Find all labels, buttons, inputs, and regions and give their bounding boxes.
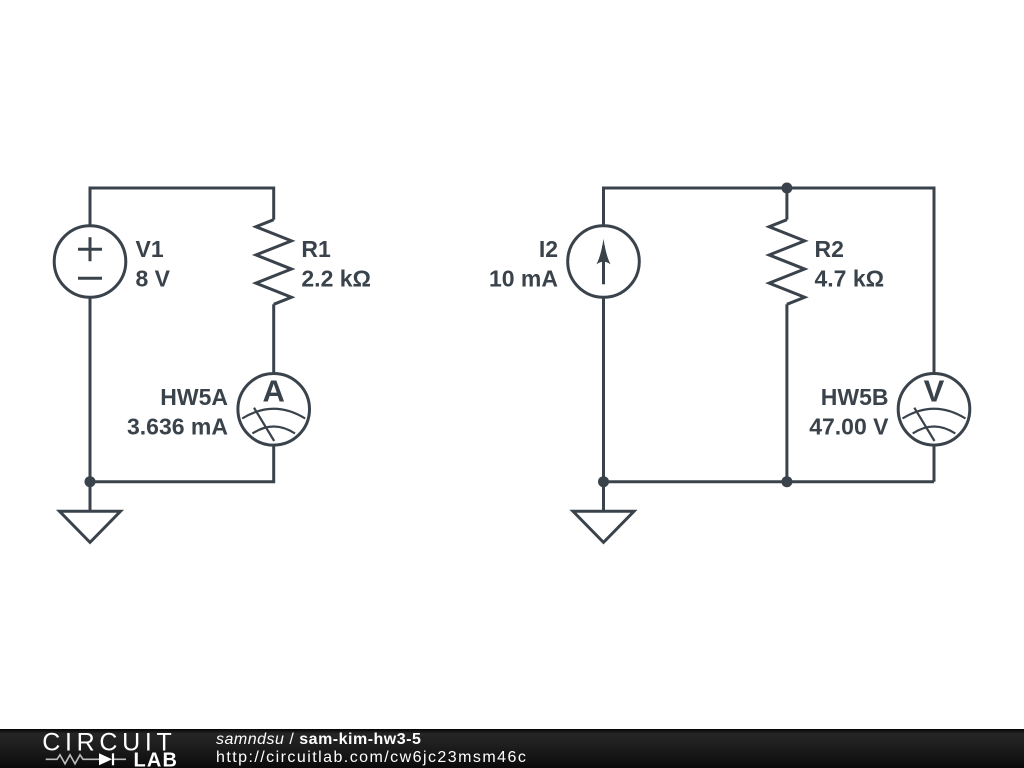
svg-text:R2: R2 [815, 236, 844, 262]
svg-text:47.00 V: 47.00 V [809, 413, 889, 439]
svg-text:HW5B: HW5B [821, 384, 889, 410]
svg-text:V: V [924, 373, 945, 408]
svg-text:10 mA: 10 mA [489, 266, 558, 292]
svg-text:3.636 mA: 3.636 mA [127, 413, 228, 439]
svg-text:8 V: 8 V [136, 266, 171, 292]
svg-text:I2: I2 [539, 236, 558, 262]
svg-text:A: A [263, 373, 285, 408]
svg-text:R1: R1 [301, 236, 331, 262]
svg-text:V1: V1 [136, 236, 164, 262]
svg-text:2.2 kΩ: 2.2 kΩ [301, 266, 371, 292]
svg-text:4.7 kΩ: 4.7 kΩ [815, 266, 885, 292]
svg-text:LAB: LAB [134, 749, 179, 768]
svg-text:HW5A: HW5A [160, 384, 228, 410]
